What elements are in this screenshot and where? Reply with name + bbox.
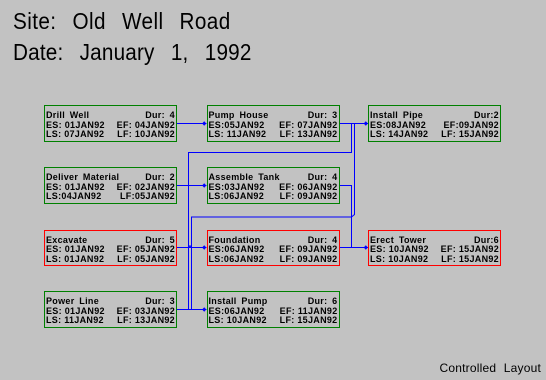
footer label bbox=[440, 361, 541, 375]
arc: Power Line to Install Pipe (up the left channel, across, up right channel) bbox=[177, 124, 352, 310]
node: Drill Well bbox=[44, 105, 177, 142]
node: Excavate (critical) bbox=[44, 230, 177, 267]
node: Foundation (critical) bbox=[207, 230, 340, 267]
arc: Assemble Tank to Erect Tower (down right channel) bbox=[339, 186, 363, 248]
arc: Excavate to Foundation bbox=[177, 245, 207, 249]
arc: Drill Well to Pump House bbox=[177, 121, 207, 125]
arc: Pump House to Install Pipe bbox=[339, 121, 368, 125]
title line 1 bbox=[13, 8, 231, 35]
node: Power Line bbox=[44, 291, 177, 328]
node: Pump House bbox=[207, 105, 340, 142]
node: Install Pump bbox=[207, 291, 340, 328]
node: Assemble Tank bbox=[207, 167, 340, 204]
title line 2 bbox=[13, 39, 252, 66]
arc: channel drop from row1 to Install Pump bbox=[192, 124, 355, 312]
node: Install Pipe bbox=[368, 105, 501, 142]
arc: Deliver Material to Assemble Tank bbox=[177, 183, 207, 187]
wire: junction nick at Excavate crossing bbox=[189, 246, 192, 248]
wire: bridge at Install Pump row bbox=[189, 309, 192, 311]
node: Deliver Material bbox=[44, 167, 177, 204]
node: Erect Tower (critical) bbox=[368, 230, 501, 267]
arc: Foundation to Erect Tower bbox=[339, 245, 368, 249]
